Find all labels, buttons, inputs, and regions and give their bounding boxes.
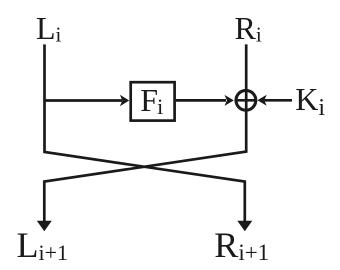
XOR node (circle with plus) — [236, 90, 256, 110]
XOR plus horizontal stroke — [235, 99, 257, 102]
wire: K_i to XOR — [265, 99, 293, 102]
F box (round function) — [131, 82, 175, 120]
wire: right vertical from R_i through XOR, diagonal cross to bottom-left, down to L_i+1 arrow — [44, 44, 246, 224]
wire: left vertical from L_i, diagonal cross to bottom-right, down to R_i+1 arrow — [45, 44, 245, 224]
arrowhead into XOR from right (from K_i) — [257, 95, 266, 106]
label R_i (right input) — [235, 10, 262, 47]
arrowhead into F box — [120, 95, 129, 106]
wire: F box output to XOR — [176, 99, 226, 102]
label K_i (round key) — [295, 81, 325, 121]
arrowhead into XOR from left — [225, 95, 234, 106]
label R_i+1 (right output) — [214, 225, 269, 265]
label L_i (left input) — [36, 10, 62, 47]
arrowhead down to R_i+1 — [237, 221, 252, 231]
wire: horizontal branch from left vertical toward F box — [44, 99, 123, 102]
label L_i+1 (left output) — [17, 225, 69, 265]
label F_i inside box — [140, 82, 163, 119]
arrowhead down to L_i+1 — [37, 221, 52, 231]
